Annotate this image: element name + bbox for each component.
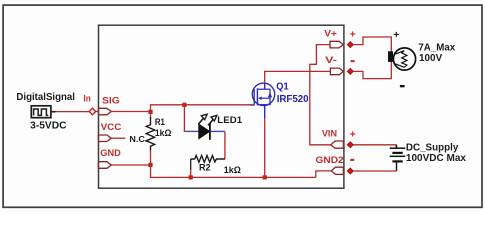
svg-text:GND: GND [100,148,121,159]
label lamp minus [400,85,405,87]
wire SIG riser to gate rail [151,105,252,112]
wire source to GND rail [264,118,266,178]
svg-text:100V: 100V [419,53,443,64]
node diamond VIN [347,142,353,148]
wire VCC stub [111,137,125,139]
Q1 source arrow [268,92,272,97]
node junction R1 top [148,110,152,114]
wire battery corner [395,145,398,148]
svg-text:SIG: SIG [102,96,120,107]
pin VCC [98,135,111,142]
wire LED cathode drop [224,131,226,159]
wire V+ to lamp [353,37,391,53]
svg-text:3-5VDC: 3-5VDC [30,121,66,132]
resistor R2 [191,156,225,163]
svg-text:V-: V- [325,55,337,66]
source V1 pulse box [31,106,51,118]
wire GND drop and bottom rail [151,165,316,177]
battery V2 top lead [396,145,398,148]
wire GND2 to battery [353,170,396,172]
wire GND [111,164,150,166]
battery V2 plate short 1 [392,152,402,154]
Q1 gate bar [253,89,255,105]
svg-text:100VDC Max: 100VDC Max [406,153,467,164]
wire R2 to GND rail [190,170,192,178]
resistor R1 [146,117,154,151]
pin GND [98,162,111,169]
wire V- to lamp [353,62,391,79]
lamp X1 filament bottom lead [394,64,404,68]
battery V2 plate long 1 [390,147,406,149]
svg-text:Q1: Q1 [276,82,289,93]
node junction R2 bottom [189,175,193,179]
wire LED anode drop [184,105,187,132]
Q1 drain lead [264,83,266,89]
lamp X1 filament zigzag [402,51,407,68]
lamp X1 bulb [393,48,415,70]
svg-text:DC_Supply: DC_Supply [406,142,459,153]
source pin stub [51,111,56,113]
svg-text:N.C.: N.C. [129,134,147,144]
node diamond V+ [347,42,353,48]
transistor Q1 circle [252,83,274,105]
LED1 anode lead [186,130,198,132]
pin VIN [331,141,344,148]
svg-text:1kΩ: 1kΩ [155,128,172,139]
svg-text:+: + [350,28,356,40]
node junction R1 bottom [148,163,152,167]
R2 pin down segment [190,159,192,170]
svg-text:+: + [393,29,399,41]
svg-text:IRF520: IRF520 [277,94,309,105]
wire In [56,111,90,113]
source pulse waveform [34,109,49,115]
wire SIG [111,111,150,113]
Q1 body bar [262,97,271,99]
wire diamond to box [96,111,99,113]
lamp X1 filament top lead [394,51,404,55]
svg-text:R1: R1 [155,117,166,128]
battery V2 plate long 2 [390,155,406,157]
Q1 body arrow [258,96,262,100]
LED1 arrow 2 [208,115,217,125]
svg-text:GND2: GND2 [316,155,344,166]
lamp X1 terminal tab [388,51,393,62]
LED1 arrow 1 [198,114,207,124]
label minus GND2 [350,159,354,161]
wire drain to V- [265,71,331,83]
wire VIN to battery [353,144,396,146]
svg-text:LED1: LED1 [217,115,243,126]
svg-text:1kΩ: 1kΩ [224,165,241,176]
svg-text:DigitalSignal: DigitalSignal [16,92,75,103]
Q1 source lead [264,105,266,119]
wire GND riser to GND2 [316,171,331,178]
Q1 drain bar [257,89,270,104]
LED1 cathode lead [211,130,225,132]
pin GND2 [331,167,343,174]
node junction LED branch [182,103,186,107]
node In diamond [89,108,96,115]
node junction source bottom [263,175,267,179]
LED1 cathode bar [209,123,211,139]
wire R1 top stub [150,112,152,118]
subcircuit box [99,25,344,188]
battery V2 bottom lead [396,161,398,171]
Q1 gate lead [251,104,255,106]
svg-text:V+: V+ [324,28,337,39]
pin SIG [98,108,111,115]
wire V+ to VIN internal [310,45,331,145]
pin V+ [330,41,343,48]
node diamond GND2 [347,168,353,174]
svg-text:In: In [83,94,91,105]
svg-text:VCC: VCC [101,122,122,133]
LED1 triangle [199,124,210,139]
pin V- [330,68,343,75]
battery V2 plate short 2 [392,160,402,162]
wire R1 bottom stub [150,150,152,165]
node diamond V- [347,69,353,75]
svg-text:R2: R2 [199,163,211,174]
Q1 channel bar [256,88,258,105]
svg-text:VIN: VIN [322,129,337,140]
svg-text:+: + [350,128,356,140]
label minus V- [351,60,355,62]
